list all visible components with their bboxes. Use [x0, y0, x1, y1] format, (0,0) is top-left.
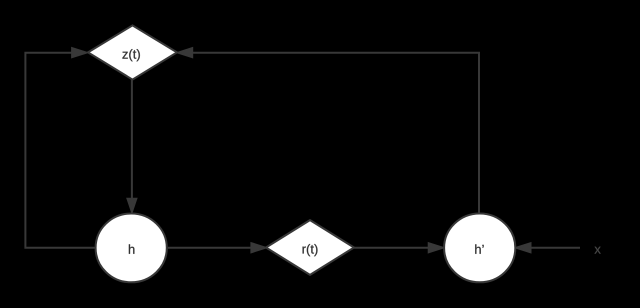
arrowhead into h' left side [429, 243, 443, 252]
arrowhead into r(t) left vertex [251, 243, 265, 252]
label h' [475, 244, 483, 253]
arrowhead into z(t) left vertex [72, 48, 86, 57]
arrowhead into z(t) right vertex [178, 48, 192, 57]
label h [129, 244, 134, 253]
label r(t) [303, 244, 318, 256]
wire r(t) to h' [354, 247, 429, 249]
label z(t) [122, 49, 139, 61]
state circle h [96, 214, 167, 283]
wire h' to z(t) top feedback loop [192, 53, 479, 213]
input label x [595, 247, 601, 254]
arrowhead into h top [128, 199, 137, 212]
wire h to z(t) left feedback loop [25, 53, 95, 248]
state circle h' [444, 214, 515, 283]
wire h to r(t) [168, 247, 252, 249]
wire z(t) down to h [131, 80, 133, 199]
decision diamond z(t) [88, 25, 177, 79]
arrowhead into h' right side [516, 243, 530, 252]
wire x to h' [530, 247, 580, 249]
decision diamond r(t) [266, 220, 354, 275]
